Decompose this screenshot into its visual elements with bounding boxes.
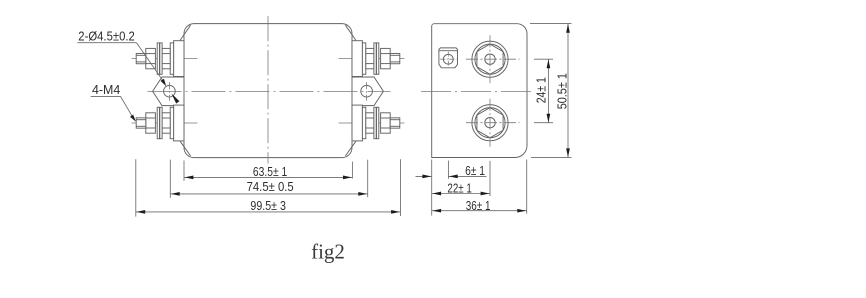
- svg-text:4-M4: 4-M4: [92, 82, 120, 97]
- svg-text:fig2: fig2: [311, 240, 345, 264]
- svg-text:22± 1: 22± 1: [447, 181, 471, 196]
- svg-text:6± 1: 6± 1: [465, 163, 485, 178]
- svg-text:2-Ø4.5±0.2: 2-Ø4.5±0.2: [78, 28, 135, 43]
- svg-text:36± 1: 36± 1: [466, 198, 491, 213]
- svg-text:74.5± 0.5: 74.5± 0.5: [247, 179, 294, 194]
- svg-text:50.5± 1: 50.5± 1: [554, 73, 569, 109]
- svg-text:63.5± 1: 63.5± 1: [253, 164, 287, 179]
- svg-text:99.5± 3: 99.5± 3: [250, 198, 286, 213]
- svg-text:24± 1: 24± 1: [534, 77, 549, 103]
